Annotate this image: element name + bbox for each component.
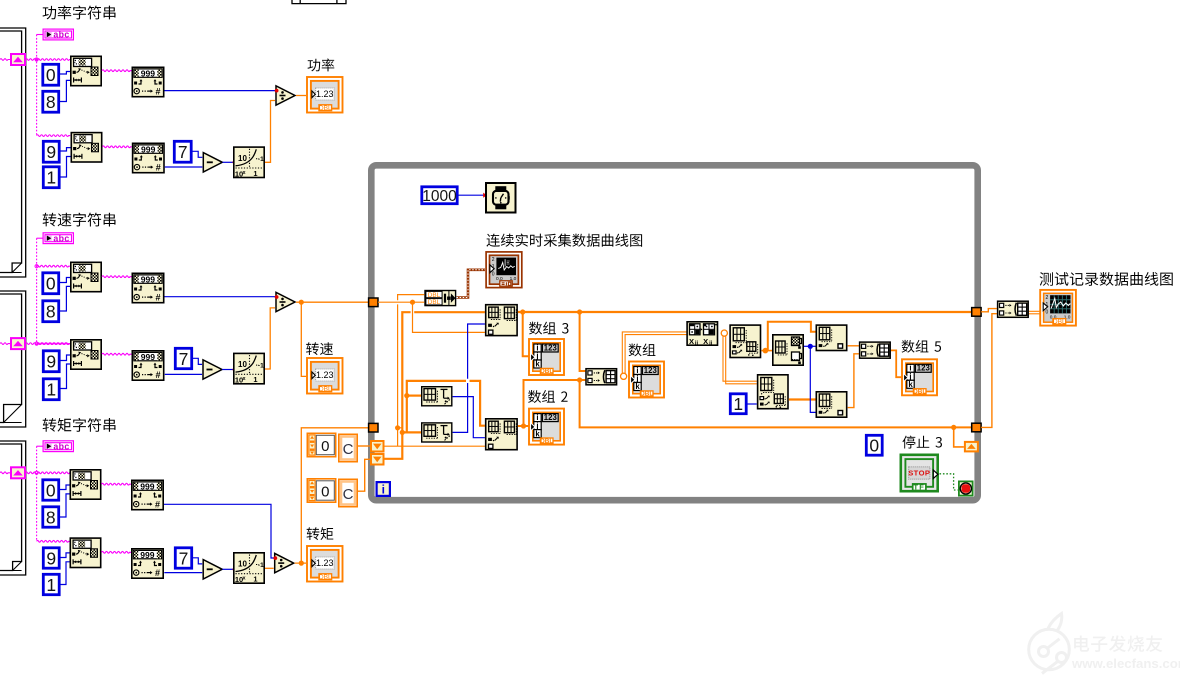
wire vertical to bundle top: [395, 295, 424, 447]
label 转矩: [307, 527, 334, 540]
watermark text www.elecfans.com: [1071, 656, 1180, 671]
numeric constant 7 (G3): [175, 548, 191, 569]
wire subtract to pow10 (G1): [223, 160, 237, 164]
subtract G1: [203, 153, 222, 172]
wire 9 to subset (G1): [61, 148, 71, 151]
wait ms multiple (clock): [486, 183, 516, 213]
label 数组: [629, 343, 656, 356]
wire divide to indicator (G1): [296, 95, 306, 97]
wire build-array-3 to index-array-3: [789, 398, 816, 400]
bundle function: [425, 291, 456, 307]
wire 0 to subset (G2): [60, 278, 70, 283]
numeric constant 1 (G3): [43, 574, 59, 595]
string constant 转矩字符串 (abc): [43, 441, 73, 452]
numeric constant 9 (G2): [43, 351, 59, 372]
svg-text:9: 9: [46, 142, 56, 162]
wire 999 to subtract (G3): [164, 572, 202, 574]
label 测试记录数据曲线图: [1040, 272, 1173, 286]
array size 1: [422, 387, 452, 406]
wire up-over to index-array-2: [765, 322, 815, 351]
wire array-size-1 to build-array-2: [453, 397, 485, 438]
wire index-array-1 output: [762, 348, 773, 354]
svg-text:0: 0: [46, 274, 56, 294]
string constant 转速字符串 (abc): [43, 233, 73, 244]
wire build-array-2 output to 数组2: [518, 423, 530, 428]
wire subset to 999 (G1b): [103, 146, 132, 148]
loop tunnel main out (right): [972, 308, 981, 317]
numeric constant 9 (G1): [43, 141, 59, 162]
case tunnel (magenta) G1: [11, 54, 25, 65]
build array 2: [486, 419, 517, 450]
svg-text:1: 1: [733, 394, 743, 414]
wire to array-size-1: [407, 395, 421, 397]
wire C to SR2: [358, 459, 370, 491]
string-to-number G3b: [132, 549, 163, 578]
index array 1: [730, 325, 760, 357]
wire branch to build-array-1 scalar input: [413, 302, 485, 332]
wire 0 to subset (G3): [60, 485, 70, 490]
svg-text:1: 1: [46, 380, 56, 400]
wire 1 to subset (G2): [61, 364, 71, 389]
numeric control 0 (lower): [307, 479, 335, 502]
wire 9 to subset (G2): [61, 355, 71, 361]
wire 1 to build-array-3: [748, 403, 757, 405]
wire build-array-2 up-over: [524, 377, 586, 426]
string wire vertical branch G1: [35, 35, 70, 137]
waveform chart 连续实时采集数据曲线图: [486, 252, 522, 288]
divide G2: [275, 292, 295, 311]
divide G1: [275, 86, 295, 105]
string subset G3b: [70, 538, 100, 567]
case structure frame 3 (bottom left): [0, 441, 26, 575]
case selector label (clipped at top): [292, 0, 346, 4]
loop tunnel 转矩 (left): [369, 423, 378, 432]
case tunnel (magenta) G3: [11, 467, 25, 478]
wire SR2 to build-array-1 (array): [385, 312, 485, 459]
numeric indicator 转矩: [307, 546, 343, 582]
wire 8 to subset (G2): [60, 286, 70, 311]
svg-text:0: 0: [869, 436, 879, 456]
array indicator 数组 5: [902, 359, 937, 395]
wire 8 to subset (G3): [60, 494, 70, 517]
waveform graph 测试记录数据曲线图: [1040, 290, 1076, 326]
string wire from tunnel G3: [0, 472, 70, 474]
string wire row1 branch G2: [35, 265, 70, 268]
string subset G2b: [71, 340, 101, 369]
wire blue down to index-array-3: [810, 346, 815, 412]
array indicator 数组 3: [529, 339, 564, 375]
ring control C (upper): [339, 434, 357, 461]
wire 转速 tunnel to bundle: [378, 300, 424, 305]
iteration terminal i: [377, 482, 390, 497]
wire 999 to divide (G2): [165, 296, 276, 298]
string subset G2a: [71, 262, 101, 291]
index array 2: [816, 325, 846, 350]
wire bottom tunnel to build-array-out: [981, 314, 997, 428]
wire long bottom to right tunnel: [580, 380, 972, 430]
wire branch to 转速 indicator: [301, 302, 306, 376]
2D wire to graph: [1029, 311, 1040, 314]
wire 999 to subtract (G2): [165, 373, 202, 375]
string wire vertical branch G2: [35, 238, 70, 345]
wire divide to loop tunnel (G2): [296, 300, 369, 305]
numeric constant 1 (index): [730, 394, 746, 414]
svg-text:9: 9: [46, 352, 56, 372]
shift register right (up arrow): [965, 442, 978, 452]
wire subset to 999 (G3b): [102, 551, 132, 553]
svg-text:1: 1: [46, 575, 56, 595]
case structure frame 2 (middle left): [0, 291, 26, 427]
svg-text:0: 0: [46, 480, 56, 500]
wire 1 to subset (G3): [61, 562, 70, 585]
svg-text:1000: 1000: [422, 188, 457, 205]
shift register left 1 (down arrow): [371, 441, 384, 452]
power-of-10 G1: [234, 147, 264, 178]
numeric control 0 (upper): [307, 433, 335, 456]
build array output: [998, 301, 1029, 317]
svg-text:8: 8: [46, 507, 56, 527]
build array 1: [486, 305, 517, 336]
label 转速: [306, 342, 333, 355]
string-to-number G2a: [132, 273, 163, 302]
subtract G2: [203, 360, 222, 379]
numeric constant 9 (G3): [43, 548, 59, 569]
array indicator 数组 2: [529, 409, 564, 445]
label 功率: [308, 58, 335, 71]
divide G3: [273, 553, 293, 572]
case tunnel (magenta) G2: [11, 338, 25, 349]
stop button 停止 3: [901, 455, 938, 492]
label 停止 3: [902, 436, 942, 449]
numeric constant 0 (stop): [866, 435, 882, 455]
power-of-10 G3: [234, 553, 264, 584]
wire subset to 999 (G1a): [102, 70, 132, 72]
build array 3: [758, 375, 788, 409]
coercion dot interleave output: [721, 330, 727, 336]
wire array branch up to build-array-2 top: [404, 381, 485, 433]
numeric constant 7 (G1): [174, 141, 191, 162]
numeric constant 7 (G2): [175, 348, 191, 369]
numeric constant 0 (G3): [43, 480, 59, 501]
coercion dot on 数组 input: [621, 373, 627, 379]
wire subset to 999 (G2b): [102, 353, 132, 355]
2D wire down to build-array-3: [723, 336, 757, 384]
wire 8 to subset (G1): [60, 80, 70, 101]
wire 转矩 junction hop: [398, 428, 403, 433]
cluster wire bundle to chart: [457, 270, 486, 298]
wire 9 to subset (G3): [61, 553, 70, 558]
svg-text:7: 7: [179, 548, 189, 568]
wire index-array-2 to build-array-5: [848, 345, 859, 347]
watermark text 电子发烧友: [1074, 635, 1162, 652]
wire build-array-1 output (main): [518, 309, 973, 314]
svg-text:1: 1: [46, 168, 56, 188]
numeric indicator 转速: [307, 358, 343, 394]
svg-text:8: 8: [46, 92, 56, 112]
build array 5: [860, 342, 891, 358]
wire divide to loop tunnel (G3): [295, 428, 369, 566]
numeric constant 8 (G1): [43, 91, 59, 112]
wire subtract to pow10 (G2): [222, 368, 236, 372]
build array (pair) small: [586, 369, 617, 385]
svg-text:0: 0: [46, 65, 56, 85]
string-to-number G2b: [132, 351, 163, 380]
wire subset to 999 (G3a): [102, 483, 132, 485]
string constant 功率字符串 (abc): [43, 29, 73, 40]
string subset G1b: [71, 133, 101, 162]
string-to-number G1b: [133, 143, 164, 172]
2D wire up to interleave: [622, 332, 686, 374]
array size 2: [422, 423, 452, 442]
wire C to SR1: [358, 445, 370, 447]
watermark elecfans logo: [1029, 614, 1070, 674]
numeric constant 1 (G2): [43, 379, 59, 400]
svg-text:7: 7: [178, 142, 188, 162]
wire array-subset output (blue): [804, 344, 816, 349]
string wire from tunnel G2: [0, 343, 70, 345]
numeric constant 1 (G1): [43, 167, 59, 188]
wire to array-size-2: [402, 431, 421, 433]
wire 7 to subtract (G3): [193, 558, 202, 564]
array indicator 数组: [629, 362, 664, 398]
wire subset to 999 (G2a): [102, 276, 132, 278]
wire array-size-2 to build-array-1: [453, 324, 485, 432]
wire branch to interleave-pair top: [580, 312, 586, 371]
array subset: [773, 335, 803, 365]
shift register left 2 (down arrow): [371, 454, 384, 465]
wire top tunnel to build-array-out: [981, 309, 997, 312]
string wire from tunnel G1: [0, 59, 70, 61]
numeric constant 1000: [422, 187, 457, 205]
loop tunnel 转速 (left): [369, 298, 378, 307]
label 连续实时采集数据曲线图: [486, 234, 642, 247]
numeric constant 8 (G2): [43, 301, 59, 322]
string subset G1a: [71, 56, 101, 85]
wire subtract to pow10 (G3): [222, 567, 236, 571]
numeric indicator 功率: [307, 77, 343, 113]
wire 999 to divide (G1): [165, 90, 276, 92]
wire 7 to subtract (G2): [193, 358, 202, 364]
label 功率字符串: [43, 6, 116, 20]
power-of-10 G2: [234, 353, 264, 384]
index array 3: [816, 392, 846, 417]
wire to shift register up: [954, 427, 964, 447]
svg-text:www.elecfans.com: www.elecfans.com: [1071, 656, 1180, 671]
string-to-number G1a: [132, 67, 163, 96]
numeric constant 0 (G1): [43, 64, 59, 85]
wire pow10 to divide (G1): [265, 101, 275, 163]
numeric constant 0 (G2): [43, 273, 59, 294]
subtract G3: [203, 560, 222, 579]
wire 1 to subset (G1): [61, 157, 71, 178]
loop condition terminal (stop): [959, 481, 973, 495]
case structure frame 1 (top left): [0, 28, 26, 277]
wire pow10 to divide (G3): [265, 567, 274, 569]
numeric constant 8 (G3): [43, 507, 59, 528]
label 数组 3: [529, 322, 568, 335]
wire branch to 数组3: [523, 312, 531, 356]
svg-text:9: 9: [46, 548, 56, 568]
label 数组 2: [528, 390, 568, 403]
wire build-array-5 to 数组5: [891, 350, 903, 377]
string wire vertical branch G3: [35, 446, 70, 542]
wire SR1 row to build-array-2 scalar input: [385, 445, 485, 447]
label 转速字符串: [43, 213, 116, 227]
svg-text:7: 7: [179, 349, 189, 369]
while loop frame: [371, 165, 977, 500]
wire pow10 to divide (G2): [265, 308, 275, 369]
wire 1000 to wait: [459, 193, 487, 198]
ring control C (lower): [339, 479, 357, 506]
label 转矩字符串: [43, 418, 116, 432]
string-to-number G3a: [132, 480, 163, 509]
wire 7 to subtract (G1): [193, 151, 203, 157]
wire 999 to divide (G3): [164, 504, 274, 558]
boolean wire stop to condition: [940, 474, 958, 490]
string subset G3a: [70, 470, 100, 499]
interleave 2D arrays: [687, 322, 717, 347]
wire 0 to subset (G1): [60, 72, 70, 75]
loop tunnel bottom out (right): [972, 423, 981, 432]
wire 999 to subtract (G1): [165, 166, 203, 168]
svg-text:8: 8: [46, 302, 56, 322]
label 数组 5: [902, 340, 941, 353]
wire index-array-3 to build-array-5: [848, 354, 859, 408]
